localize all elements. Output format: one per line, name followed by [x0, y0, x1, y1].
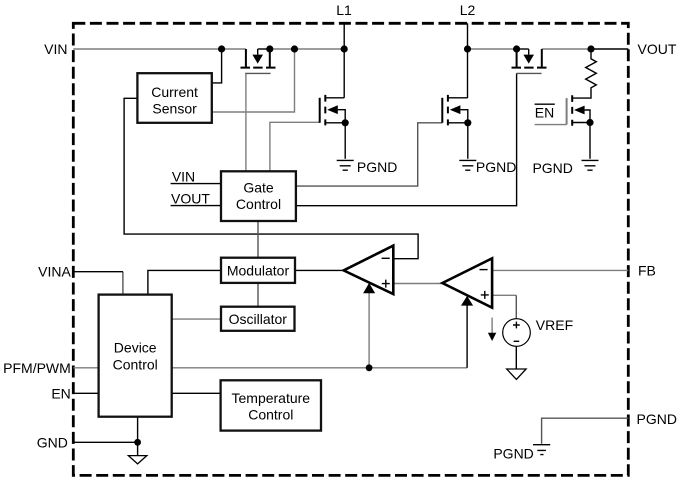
svg-text:PGND: PGND — [637, 411, 677, 427]
svg-text:VIN: VIN — [172, 169, 195, 185]
svg-text:Current: Current — [151, 84, 198, 100]
svg-text:VIN: VIN — [44, 41, 67, 57]
svg-text:Temperature: Temperature — [232, 390, 311, 406]
svg-text:GND: GND — [37, 434, 68, 450]
svg-text:L2: L2 — [460, 2, 476, 18]
svg-text:Control: Control — [248, 407, 293, 423]
svg-text:Oscillator: Oscillator — [229, 311, 288, 327]
svg-text:VREF: VREF — [536, 317, 573, 333]
svg-text:EN: EN — [51, 386, 70, 402]
svg-text:PGND: PGND — [493, 445, 533, 461]
svg-text:EN: EN — [535, 104, 554, 120]
svg-text:Control: Control — [113, 356, 158, 372]
svg-text:VOUT: VOUT — [638, 41, 677, 57]
svg-text:Control: Control — [236, 196, 281, 212]
svg-text:Modulator: Modulator — [227, 263, 290, 279]
svg-text:PGND: PGND — [476, 159, 516, 175]
svg-text:VOUT: VOUT — [171, 191, 210, 207]
svg-text:Device: Device — [114, 340, 157, 356]
svg-text:FB: FB — [638, 263, 656, 279]
svg-text:PGND: PGND — [532, 160, 572, 176]
svg-text:L1: L1 — [336, 2, 352, 18]
svg-text:PGND: PGND — [357, 159, 397, 175]
svg-text:PFM/PWM: PFM/PWM — [3, 360, 71, 376]
svg-text:Gate: Gate — [243, 179, 274, 195]
svg-text:Sensor: Sensor — [152, 101, 197, 117]
svg-text:VINA: VINA — [38, 264, 71, 280]
